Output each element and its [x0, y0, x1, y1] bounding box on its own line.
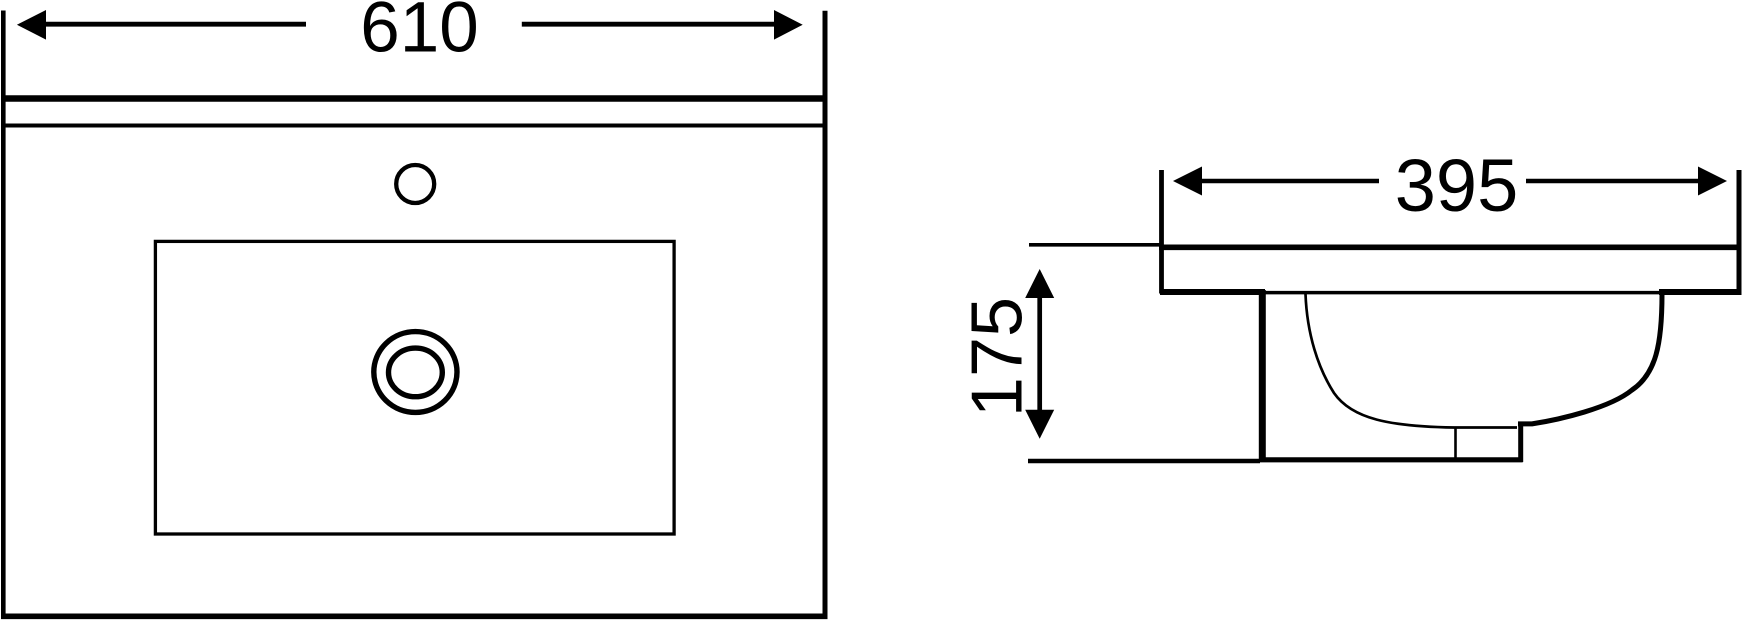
side view: 175 bottom extension line [1028, 459, 1260, 463]
side view: 395 right extension line / slab right edge [1737, 170, 1742, 292]
svg-text:610: 610 [360, 0, 478, 68]
svg-text:395: 395 [1395, 144, 1518, 227]
side view: slab top line [1159, 245, 1742, 251]
side view: body bottom line [1259, 457, 1523, 462]
basin inner rectangle [155, 241, 674, 534]
svg-text:175: 175 [958, 297, 1038, 417]
arrowhead 395 right [1698, 167, 1727, 196]
side view: body left edge [1259, 290, 1266, 462]
drain inner ring [389, 348, 443, 397]
side view: slab bottom thick right segment [1659, 289, 1742, 295]
arrowhead 175 bottom [1025, 410, 1054, 439]
dimension line 610 left segment [45, 22, 306, 27]
faucet hole [396, 165, 434, 203]
arrowhead 175 top [1025, 269, 1054, 298]
plan view: right side edge / extension line [823, 11, 828, 619]
plan view: left side edge / extension line [1, 11, 6, 620]
side view: drain pipe line [1454, 428, 1457, 460]
side view: bowl right curve [1518, 294, 1662, 424]
dimension line 610 right segment [522, 22, 775, 27]
side view: slab bottom line [1160, 291, 1740, 295]
arrowhead 395 left [1173, 167, 1202, 196]
arrowhead 610 left [17, 10, 46, 40]
dimension line 395 left segment [1201, 179, 1379, 184]
side view: 395 left extension line / slab left edge [1159, 170, 1164, 294]
plan view: inner rim line [1, 124, 828, 128]
side view: slab bottom thick left segment [1160, 289, 1265, 295]
side view: 175 top extension line [1029, 243, 1160, 247]
dimension line 175 (vertical shaft) [1037, 296, 1042, 411]
side view: bowl left curve [1306, 294, 1518, 428]
plan view: bottom edge [1, 613, 828, 619]
side view: body right edge step [1518, 423, 1523, 462]
plan view: top edge (thick rim line) [1, 95, 828, 101]
drain outer ring [374, 332, 457, 413]
arrowhead 610 right [774, 10, 803, 40]
dimension line 395 right segment [1526, 179, 1699, 184]
